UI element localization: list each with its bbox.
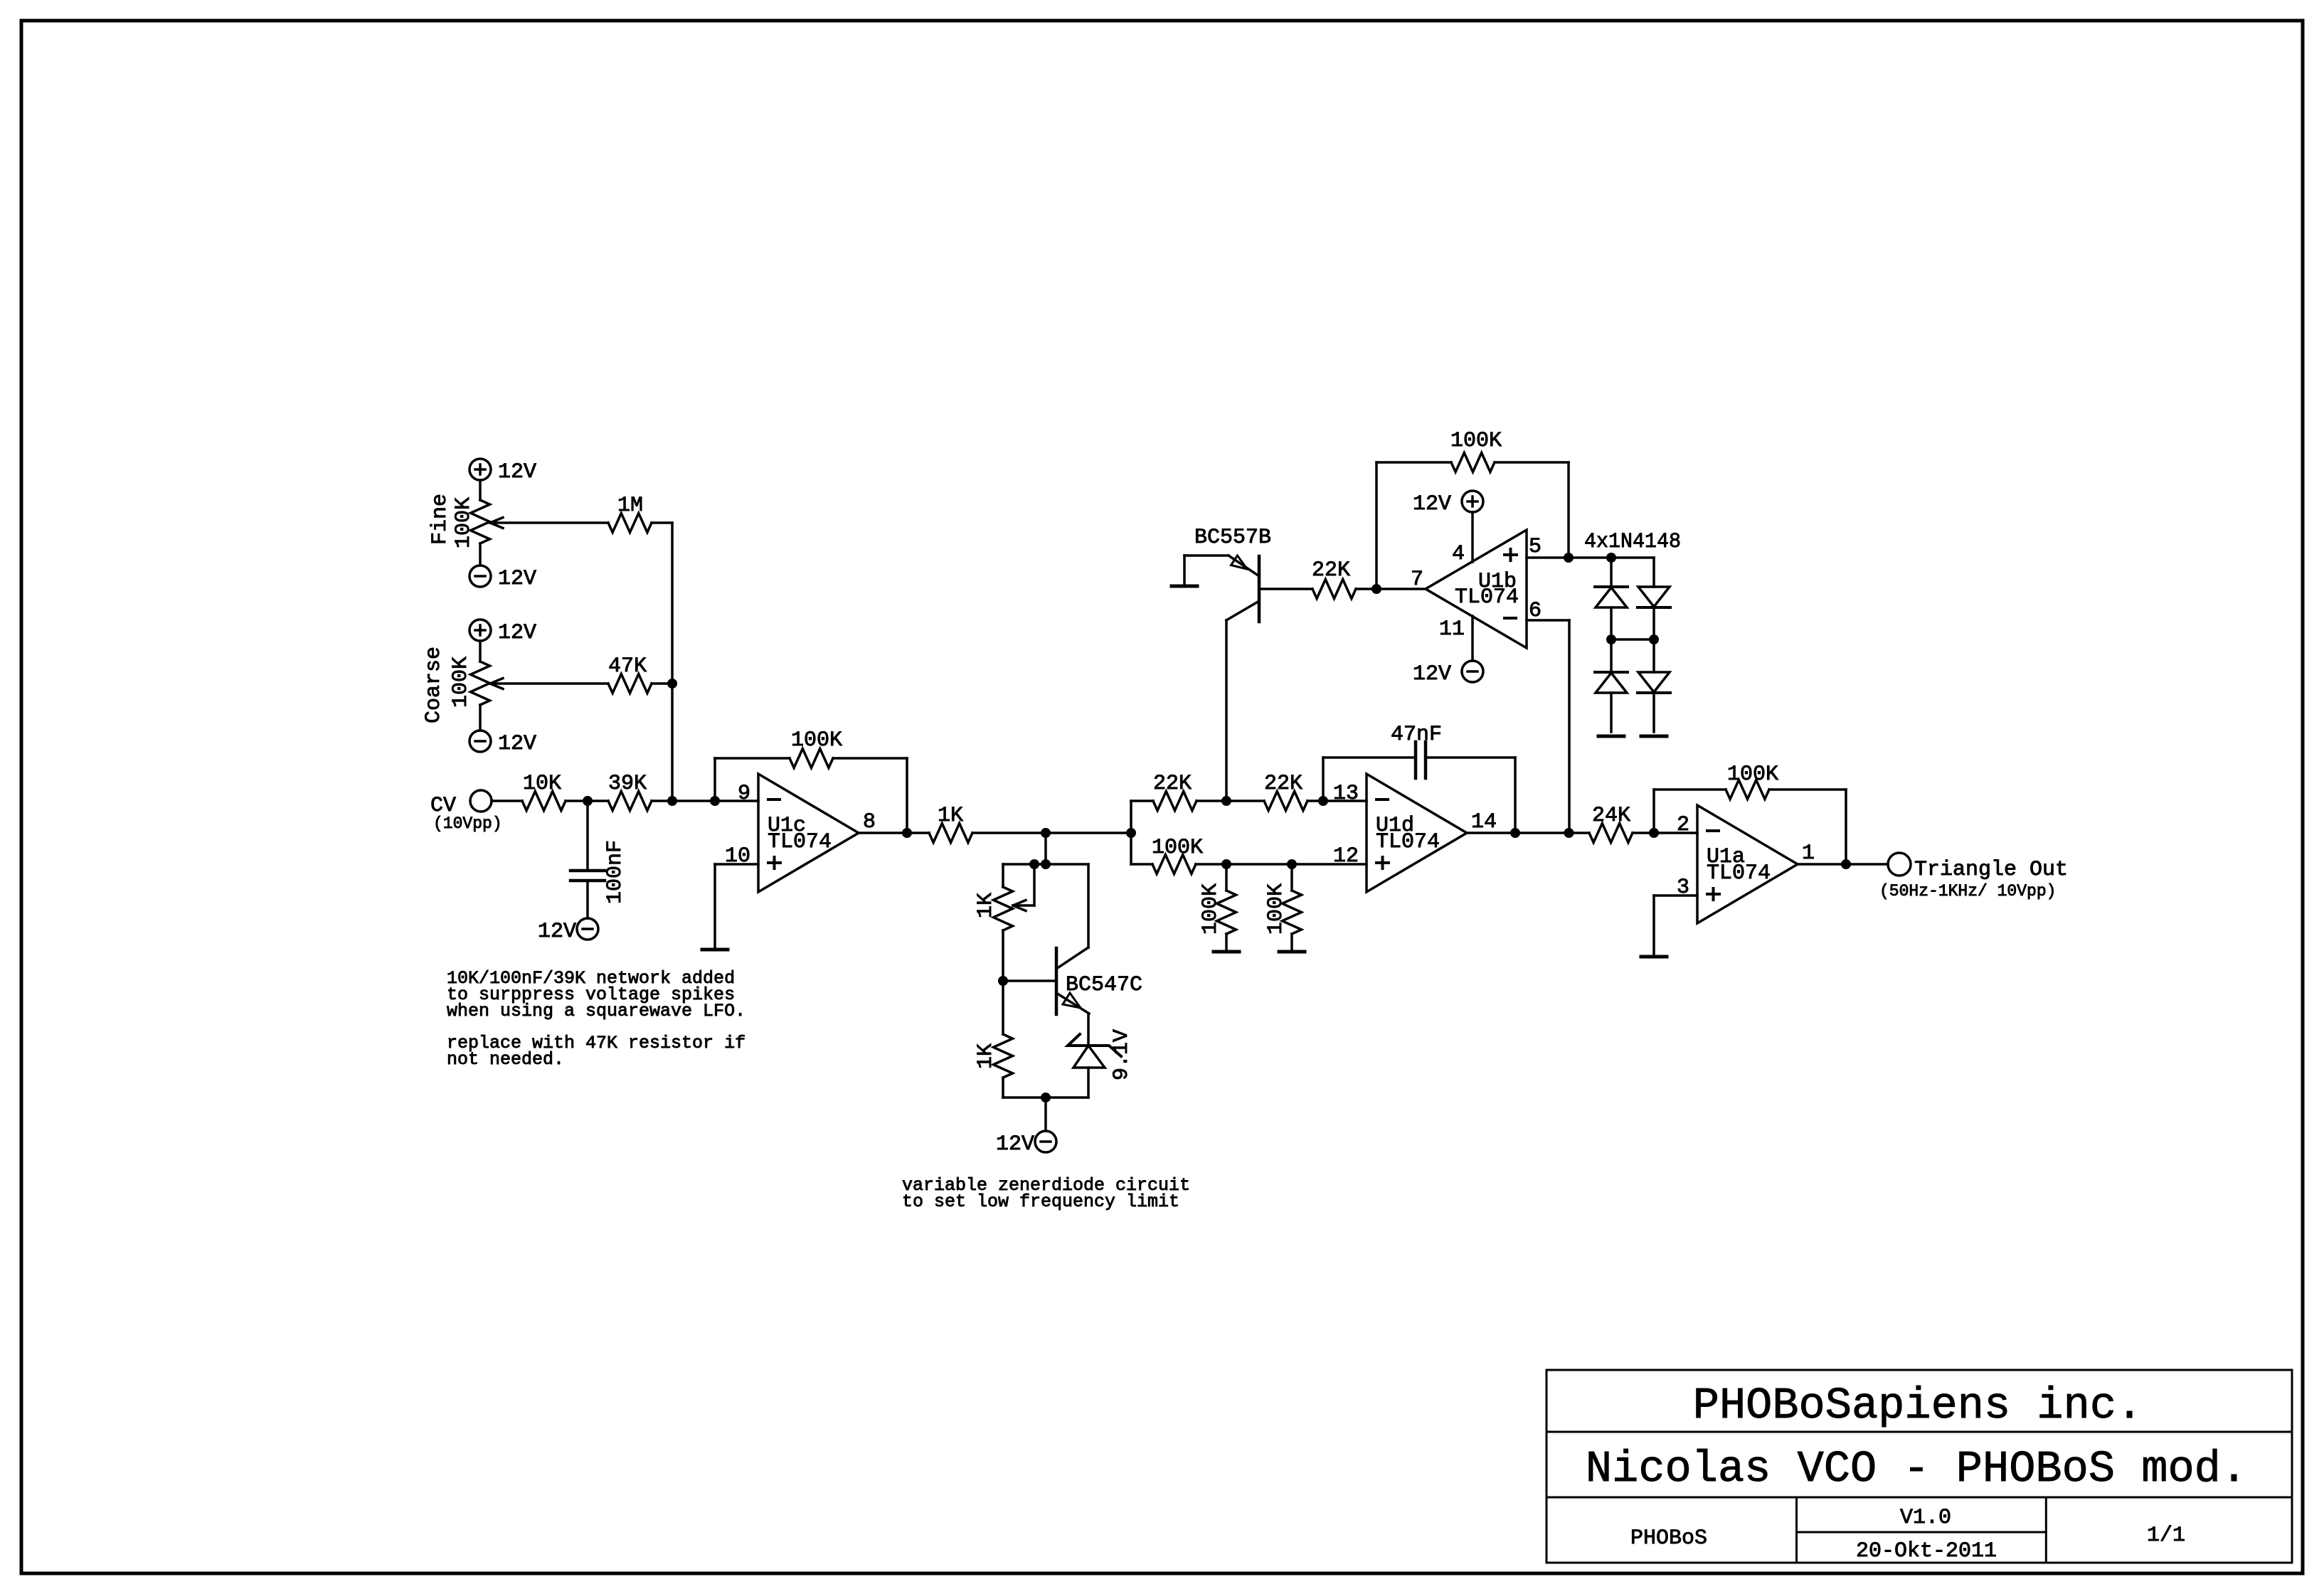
wire (1K pot wiper) (1013, 904, 1034, 907)
svg-text:11: 11 (1439, 617, 1465, 642)
transistor Q1 BC547C (1055, 948, 1058, 1014)
junction (1510, 828, 1520, 838)
power +12V (Fine top) (469, 459, 491, 480)
op-amp U1c triangle (758, 774, 859, 892)
transistor Q2 BC557B (1258, 556, 1261, 622)
svg-text:24K: 24K (1592, 804, 1630, 828)
svg-text:14: 14 (1471, 810, 1497, 834)
svg-text:100K: 100K (452, 497, 476, 548)
ground (right diode string) (1641, 735, 1667, 738)
resistor 100K (pulldown 1) (1225, 864, 1228, 891)
resistor 39K (608, 792, 652, 811)
op-amp U1d plus symbol (1376, 861, 1389, 864)
junction (1041, 859, 1051, 869)
resistor 24K (1589, 824, 1633, 843)
svg-text:Triangle Out: Triangle Out (1914, 858, 2068, 882)
power +12V (U1b) (1462, 491, 1483, 512)
wire (pin 3) (1654, 894, 1697, 897)
wire (479, 641, 482, 661)
svg-text:4: 4 (1452, 542, 1465, 566)
svg-text:100K: 100K (1152, 836, 1203, 860)
wire (566, 799, 608, 802)
svg-text:12V: 12V (1413, 662, 1451, 686)
wire (diode link) (1611, 638, 1654, 641)
op-amp U1a minus symbol (1707, 829, 1719, 832)
wire (1130, 801, 1132, 864)
svg-text:Fine: Fine (428, 494, 452, 545)
svg-text:PHOBoSapiens inc.: PHOBoSapiens inc. (1693, 1381, 2143, 1431)
zener diode 9.1V (1068, 1034, 1121, 1056)
wire (to pin 13) (1307, 799, 1367, 802)
op-amp U1a plus symbol (1707, 893, 1719, 896)
wire (U1c output) (859, 831, 929, 834)
junction (1841, 859, 1851, 869)
svg-text:TL074: TL074 (768, 830, 832, 854)
potentiometer 1K (zener) (1002, 864, 1004, 887)
junction (1041, 828, 1051, 838)
op-amp U1d minus symbol (1376, 798, 1388, 801)
resistor 22K (first) (1153, 792, 1197, 811)
power -12V (Coarse bottom) (469, 730, 491, 752)
junction (1371, 584, 1381, 594)
svg-text:8: 8 (863, 810, 876, 834)
wire (pin 11) (1471, 616, 1474, 661)
wire (U1a feedback left) (1652, 790, 1655, 833)
junction (1606, 553, 1616, 563)
svg-text:1K: 1K (974, 1043, 998, 1069)
power -12V (zener) (1035, 1131, 1056, 1152)
diode D4 (down) (1638, 672, 1670, 692)
junction (902, 828, 912, 838)
potentiometer Coarse 100K (471, 661, 490, 705)
junction (1649, 828, 1659, 838)
wire (479, 480, 482, 500)
resistor 100K (pulldown 2) (1290, 864, 1293, 891)
junction (667, 796, 677, 806)
wire (47nF loop left) (1322, 758, 1325, 801)
svg-text:12V: 12V (498, 621, 536, 645)
svg-text:12V: 12V (538, 920, 576, 944)
wire (feedback up) (713, 758, 716, 801)
junction (1287, 859, 1297, 869)
wire (1131, 863, 1152, 866)
junction (1221, 796, 1231, 806)
svg-text:100K: 100K (449, 657, 473, 708)
wire (BC557B base to 22K) (1259, 588, 1312, 590)
junction (667, 679, 677, 689)
wire (emitter) (1087, 1014, 1090, 1046)
junction (583, 796, 593, 806)
wire (U1b feedback right) (1495, 461, 1569, 464)
junction (1649, 634, 1659, 644)
svg-text:Nicolas VCO - PHOBoS mod.: Nicolas VCO - PHOBoS mod. (1586, 1444, 2247, 1494)
svg-text:22K: 22K (1312, 558, 1350, 583)
wire (U1a feedback right) (1769, 788, 1846, 791)
diode D3 (down) (1652, 558, 1655, 587)
wire (47K to bus) (652, 682, 672, 685)
wire (972, 831, 1131, 834)
wire (1044, 833, 1047, 864)
svg-text:7: 7 (1411, 568, 1423, 592)
op-amp U1b triangle (1426, 530, 1527, 648)
svg-text:1K: 1K (938, 804, 963, 828)
wire (feedback down) (906, 758, 908, 833)
svg-text:12V: 12V (498, 732, 536, 756)
ground (BC557B emitter) (1172, 585, 1197, 588)
junction (1221, 859, 1231, 869)
svg-text:100K: 100K (1450, 429, 1502, 453)
ground (left diode string) (1598, 735, 1624, 738)
svg-text:PHOBoS: PHOBoS (1630, 1526, 1707, 1551)
op-amp U1c plus symbol (768, 861, 780, 864)
svg-text:100nF: 100nF (603, 840, 627, 904)
wire (BC557B collector) (1225, 620, 1228, 801)
capacitor 47nF (1414, 742, 1418, 778)
junction (1041, 1093, 1051, 1102)
wire (pin 6) (1527, 619, 1569, 622)
svg-text:12V: 12V (1413, 492, 1451, 516)
wire (Fine wiper to 1M) (490, 521, 608, 524)
wire (492, 799, 522, 802)
svg-text:100K: 100K (1199, 883, 1223, 935)
wire bus vertical (671, 523, 674, 801)
svg-text:TL074: TL074 (1376, 830, 1440, 854)
svg-text:1M: 1M (617, 494, 643, 518)
junction (1564, 828, 1574, 838)
svg-text:1K: 1K (974, 893, 998, 918)
svg-text:100K: 100K (791, 728, 842, 753)
svg-text:100K: 100K (1727, 763, 1778, 787)
svg-text:V1.0: V1.0 (1900, 1506, 1951, 1530)
wire (U1d output) (1467, 831, 1589, 834)
power -12V (Fine bottom) (469, 565, 491, 587)
junction (710, 796, 720, 806)
wire (47nF loop right) (1426, 756, 1515, 759)
wire (1M to bus) (652, 521, 672, 524)
wire (1131, 799, 1153, 802)
resistor 100K (U1a feedback) (1726, 780, 1769, 799)
capacitor 100nF (571, 869, 605, 873)
wire (1610, 607, 1613, 672)
ground (pulldown 1) (1214, 950, 1239, 954)
wire (to U1b pin 7) (1356, 588, 1426, 590)
potentiometer Fine 100K (471, 500, 490, 543)
title block frame (1546, 1370, 2292, 1563)
svg-text:39K: 39K (608, 772, 647, 796)
ground (pulldown 2) (1279, 950, 1305, 954)
wire (586, 801, 589, 871)
wire (1183, 556, 1186, 586)
svg-text:(50Hz-1KHz/ 10Vpp): (50Hz-1KHz/ 10Vpp) (1879, 882, 2056, 900)
svg-text:22K: 22K (1264, 772, 1302, 796)
svg-text:22K: 22K (1153, 772, 1192, 796)
wire (1633, 831, 1697, 834)
power -12V (100nF) (577, 918, 598, 940)
svg-text:9: 9 (738, 782, 750, 806)
port Triangle Out (1888, 853, 1911, 876)
svg-text:2: 2 (1677, 813, 1689, 837)
wire (base) (1003, 979, 1056, 982)
svg-text:when using a squarewave LFO.: when using a squarewave LFO. (447, 1001, 746, 1021)
wire (pin 10) (715, 863, 758, 866)
wire (586, 881, 589, 918)
svg-text:100K: 100K (1264, 883, 1288, 935)
resistor 100K (U1c feedback) (790, 749, 833, 768)
svg-text:TL074: TL074 (1455, 585, 1519, 610)
op-amp U1a triangle (1697, 805, 1798, 923)
svg-text:12V: 12V (498, 460, 536, 484)
svg-text:12V: 12V (996, 1132, 1034, 1157)
wire (to pin 12) (1196, 863, 1367, 866)
op-amp U1b minus symbol (1505, 617, 1516, 620)
resistor 1M (608, 514, 652, 533)
wire (Coarse wiper to 47K) (490, 682, 608, 685)
wire (U1b feedback left) (1375, 462, 1378, 589)
svg-text:Coarse: Coarse (422, 647, 446, 723)
resistor 100K (lower path) (1152, 855, 1196, 874)
svg-text:5: 5 (1529, 535, 1542, 559)
wire (652, 799, 758, 802)
wire (715, 757, 790, 760)
svg-text:13: 13 (1333, 782, 1359, 806)
junction (1126, 828, 1136, 838)
svg-text:47nF: 47nF (1391, 723, 1442, 747)
svg-text:12: 12 (1333, 844, 1359, 868)
diode D1 (up) (1610, 558, 1613, 587)
svg-text:47K: 47K (608, 654, 647, 679)
wire (bottom row) (1003, 1096, 1088, 1099)
op-amp U1b plus symbol (1505, 553, 1517, 556)
wire (pin 4) (1471, 512, 1474, 562)
port CV input (470, 790, 492, 812)
junction (1318, 796, 1328, 806)
svg-text:9.1V: 9.1V (1110, 1029, 1134, 1080)
wire (1044, 1098, 1047, 1131)
svg-text:to set low frequency limit: to set low frequency limit (902, 1191, 1179, 1212)
wire (U1a output) (1798, 863, 1888, 866)
svg-text:1/1: 1/1 (2147, 1524, 2185, 1548)
resistor 100K (U1b feedback) (1451, 453, 1495, 472)
junction (1606, 634, 1616, 644)
resistor 22K (second) (1264, 792, 1307, 811)
svg-text:BC547C: BC547C (1066, 973, 1142, 997)
ground (U1a pin 3) (1641, 955, 1667, 959)
svg-text:TL074: TL074 (1707, 861, 1771, 886)
resistor 10K (522, 792, 566, 811)
wire (833, 757, 907, 760)
svg-text:20-Okt-2011: 20-Okt-2011 (1856, 1539, 1997, 1563)
op-amp U1d triangle (1367, 774, 1467, 892)
svg-text:BC557B: BC557B (1194, 526, 1271, 550)
svg-text:4x1N4148: 4x1N4148 (1584, 530, 1681, 554)
junction (1029, 859, 1039, 869)
svg-text:not needed.: not needed. (447, 1049, 564, 1070)
junction (1564, 553, 1574, 563)
junction (998, 976, 1008, 986)
wire (1197, 799, 1264, 802)
svg-text:12V: 12V (498, 567, 536, 591)
resistor 47K (608, 674, 652, 694)
op-amp U1c minus symbol (768, 798, 780, 801)
wire (zener top row) (1003, 863, 1088, 866)
resistor 22K (U1b input) (1312, 580, 1356, 599)
svg-text:10K: 10K (523, 772, 561, 796)
resistor 1K (lower) (1002, 981, 1004, 1034)
wire (pin 5 row) (1527, 556, 1654, 559)
power +12V (Coarse top) (469, 620, 491, 641)
svg-text:1: 1 (1802, 841, 1815, 866)
diode D2 (up) (1595, 671, 1628, 674)
resistor 1K (929, 824, 972, 843)
ground (U1c pin 10) (702, 948, 728, 952)
svg-text:(10Vpp): (10Vpp) (433, 814, 502, 833)
power -12V (U1b) (1462, 661, 1483, 682)
